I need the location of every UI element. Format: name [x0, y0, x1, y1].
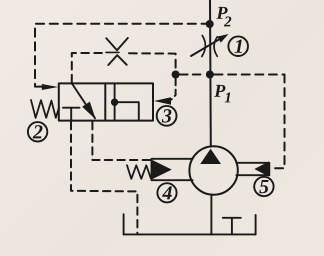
tank bottom line — [124, 233, 256, 235]
wire: dashed pilot line P1 junction to right side — [215, 74, 285, 76]
piston 5 arrowhead — [254, 161, 269, 176]
circle label 5 — [254, 177, 273, 196]
node P1 junction dot — [206, 71, 214, 79]
tank left riser — [123, 214, 125, 234]
piston 4 housing — [152, 159, 193, 180]
circle label 1 — [228, 36, 248, 56]
node valve internal junction dot — [111, 99, 118, 106]
valve left square blocked port T — [63, 108, 80, 121]
tank right riser — [255, 215, 257, 234]
tank T symbol — [223, 218, 241, 235]
wire: dashed right pilot line down to piston 5 — [270, 75, 285, 169]
piston 5 housing — [236, 163, 269, 175]
valve position divider — [104, 83, 106, 120]
fixed throttle (orifice) chevrons — [106, 38, 128, 65]
label P2 — [216, 7, 231, 27]
circle label 3 — [157, 106, 177, 126]
wire: dash between orifice chevrons — [106, 51, 119, 53]
piston 4 arrowhead — [152, 160, 172, 180]
spring 2 on valve left end — [31, 100, 59, 118]
valve right square branch path — [115, 102, 139, 120]
valve body outline — [59, 83, 153, 120]
wire: dashed drain line from valve T port to tank — [71, 122, 137, 233]
pump circle — [189, 146, 237, 194]
node P2 junction dot — [206, 20, 214, 28]
valve left square flow arrowhead — [82, 102, 96, 120]
pump flow triangle — [200, 149, 221, 164]
variable throttle U1 arrow shaft — [191, 38, 221, 56]
wire: dashed line from fixed throttle to junction above valve 3 pilot — [129, 53, 176, 70]
wire: dashed line from valve top port to fixed throttle — [72, 53, 103, 83]
node junction dot at pilot tee — [172, 71, 180, 79]
spring 4 — [127, 165, 151, 179]
label P1 — [214, 85, 230, 103]
variable throttle U1 arcs — [202, 36, 218, 57]
pilot arrowhead 3 into valve right side — [154, 97, 171, 104]
wire: short dashed P1 to tee dot — [180, 74, 206, 76]
wire: dashed control line from valve bottom port to piston 4 — [92, 122, 150, 160]
wire: pump outlet drain to tank — [210, 195, 212, 235]
wire: short lead into left pilot arrow — [35, 86, 47, 88]
pilot arrowhead into valve left side — [42, 84, 58, 90]
valve right square through path — [114, 83, 116, 120]
wire: dashed drop from tee dot to valve right pilot arrow — [172, 79, 176, 100]
variable throttle U1 arrowhead — [217, 34, 228, 43]
wire: main vertical pressure line from top to pump — [209, 0, 212, 147]
circle label 2 — [28, 122, 47, 141]
wire: dashed pilot line from P2 left along top — [35, 24, 210, 86]
circle label 4 — [157, 183, 176, 202]
valve left square flow path diagonal — [72, 84, 95, 119]
